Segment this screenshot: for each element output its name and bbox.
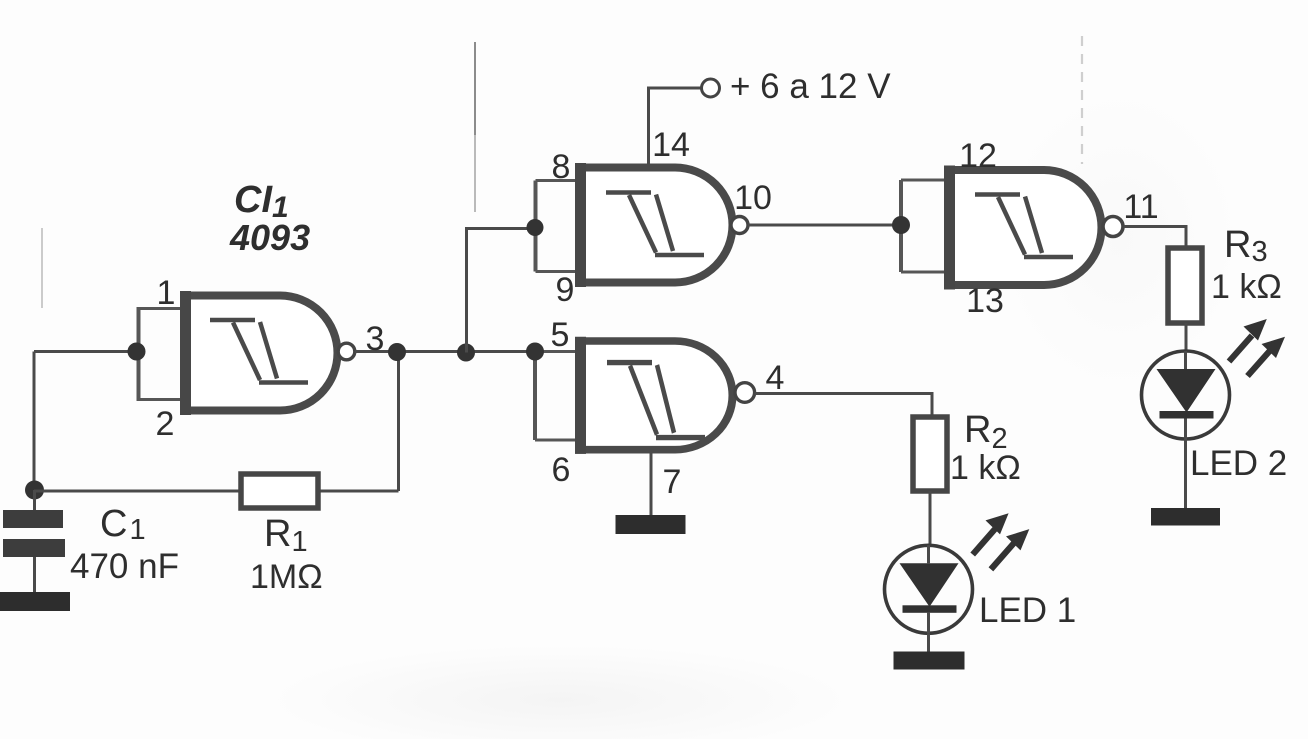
- svg-text:6: 6: [552, 451, 571, 489]
- wire gate1 input left: [34, 350, 136, 353]
- gate U1c output bubble: [731, 217, 748, 234]
- wire gate2 output to R2: [755, 394, 933, 418]
- ground under LED2: [1151, 508, 1220, 526]
- svg-text:11: 11: [1123, 188, 1158, 226]
- svg-text:LED 1: LED 1: [979, 591, 1076, 630]
- ground under C1: [0, 592, 70, 611]
- wire gate4 output to R3: [1124, 227, 1187, 249]
- node A junction dot: [25, 481, 44, 500]
- svg-text:470 nF: 470 nF: [70, 547, 179, 586]
- svg-text:10: 10: [734, 179, 772, 217]
- svg-text:13: 13: [966, 282, 1004, 320]
- LED2 light arrow 2: [1248, 350, 1271, 376]
- gate U1a body (pins 1,2 -> 3): [180, 291, 337, 415]
- LED2 light arrow 1: [1229, 336, 1252, 362]
- scan artifact faint line left: [41, 228, 43, 308]
- resistor R2: [913, 417, 947, 491]
- svg-text:14: 14: [652, 126, 690, 164]
- gate U1a hysteresis symbol: [210, 320, 308, 383]
- svg-text:5: 5: [551, 316, 570, 354]
- ground pin7: [616, 515, 686, 534]
- wire gate3 output to gate4: [748, 224, 901, 227]
- LED1 light arrow 2: [991, 543, 1014, 569]
- wire left vertical down to node: [33, 352, 36, 491]
- gate U1c bracket pins 8-9: [527, 181, 579, 272]
- node pin3 dot: [388, 343, 406, 361]
- gate U1b body (pins 5,6 -> 4): [575, 337, 732, 454]
- wire gate1 output bus: [355, 350, 535, 353]
- svg-text:1MΩ: 1MΩ: [250, 558, 323, 596]
- wire R2 to LED1: [929, 491, 932, 546]
- svg-text:8: 8: [552, 148, 571, 186]
- svg-text:LED 2: LED 2: [1190, 444, 1287, 483]
- gate U1a bracket pins 1-2: [128, 309, 181, 400]
- ground under LED1: [894, 652, 965, 670]
- gate U1b bracket pins 5-6: [526, 343, 575, 441]
- gate U1b hysteresis symbol: [607, 363, 705, 438]
- node mid junction dot: [457, 344, 475, 362]
- scan artifact faint line center: [474, 42, 476, 135]
- resistor R3: [1168, 248, 1202, 323]
- svg-text:7: 7: [663, 463, 682, 501]
- wire R3 to LED2: [1185, 323, 1188, 352]
- scan artifact faint line right: [1081, 36, 1083, 164]
- svg-text:4: 4: [766, 359, 785, 397]
- gate U1d hysteresis symbol: [975, 195, 1073, 258]
- LED D1: [885, 545, 973, 633]
- wire pin7 to ground: [650, 450, 653, 515]
- resistor R1: [241, 474, 318, 508]
- gate U1d body (pins 12,13 -> 11): [944, 166, 1101, 290]
- supply terminal circle: [702, 79, 720, 97]
- gate U1b output bubble: [735, 383, 755, 403]
- wire LED1 to ground: [927, 634, 930, 652]
- gate U1d output bubble: [1103, 217, 1123, 237]
- svg-text:12: 12: [959, 137, 997, 175]
- wire riser to gate3 input: [467, 229, 536, 353]
- svg-text:9: 9: [556, 271, 575, 309]
- svg-text:4093: 4093: [229, 217, 310, 258]
- wire feedback vertical: [397, 352, 400, 491]
- gate U1d bracket pins 12-13: [892, 180, 944, 272]
- wire feedback horizontal: [34, 490, 399, 493]
- gate U1a output bubble: [338, 343, 355, 360]
- svg-text:2: 2: [156, 405, 175, 443]
- gate U1c body (pins 8,9 -> 10): [575, 163, 732, 287]
- svg-text:1 kΩ: 1 kΩ: [950, 449, 1021, 487]
- svg-text:1 kΩ: 1 kΩ: [1211, 268, 1282, 306]
- svg-text:3: 3: [366, 320, 385, 358]
- LED1 light arrow 1: [973, 529, 995, 555]
- wire pin14 supply: [649, 88, 702, 168]
- capacitor C1: [3, 490, 65, 592]
- wire LED2 to ground: [1184, 439, 1187, 508]
- svg-text:+ 6 a 12 V: + 6 a 12 V: [730, 67, 891, 106]
- gate U1c hysteresis symbol: [606, 193, 704, 256]
- svg-text:1: 1: [157, 274, 176, 312]
- LED D2: [1142, 351, 1230, 439]
